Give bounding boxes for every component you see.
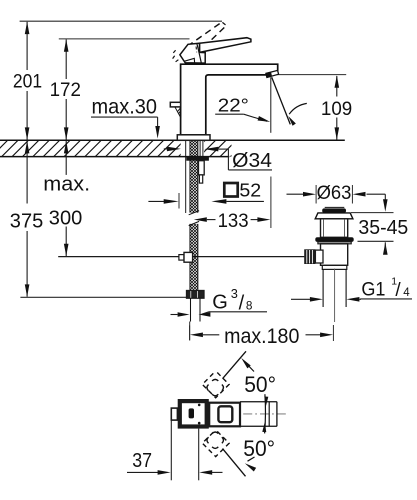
svg-text:/: / — [395, 280, 401, 301]
svg-text:50°: 50° — [244, 372, 276, 397]
svg-text:G1: G1 — [361, 280, 385, 301]
svg-text:max.180: max.180 — [224, 325, 299, 348]
svg-text:375: 375 — [10, 210, 44, 233]
svg-text:8: 8 — [246, 298, 253, 312]
svg-text:22°: 22° — [218, 95, 249, 116]
svg-text:Ø34: Ø34 — [232, 150, 272, 172]
svg-text:/: / — [239, 292, 245, 314]
svg-text:50°: 50° — [243, 436, 275, 461]
svg-text:109: 109 — [321, 99, 352, 120]
svg-text:52: 52 — [239, 180, 261, 201]
svg-text:133: 133 — [218, 211, 249, 232]
svg-text:max.: max. — [43, 173, 90, 196]
svg-text:G: G — [212, 292, 228, 314]
svg-text:37: 37 — [132, 450, 152, 472]
svg-text:35-45: 35-45 — [358, 217, 408, 239]
svg-text:172: 172 — [50, 79, 81, 101]
svg-text:3: 3 — [231, 286, 238, 301]
svg-text:Ø63: Ø63 — [317, 183, 352, 204]
svg-text:201: 201 — [13, 72, 42, 93]
svg-text:max.30: max.30 — [92, 95, 158, 118]
svg-text:300: 300 — [49, 207, 83, 229]
svg-text:4: 4 — [403, 287, 410, 299]
